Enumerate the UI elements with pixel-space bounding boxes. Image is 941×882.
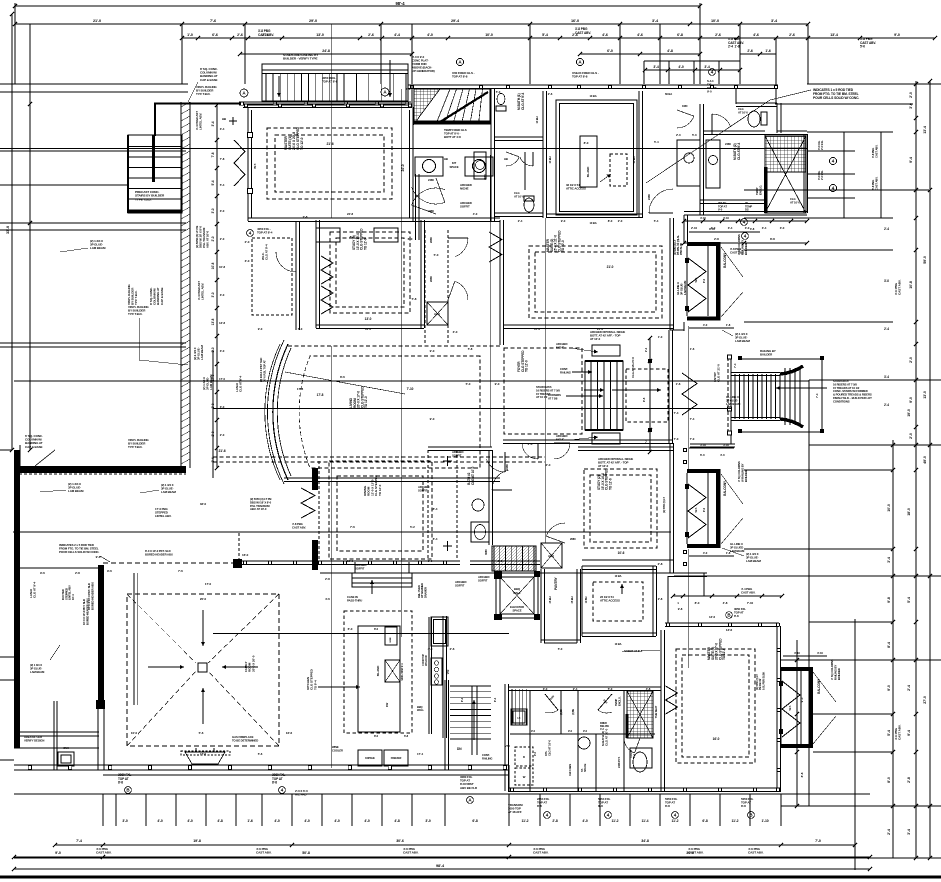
- svg-text:6'-8: 6'-8: [404, 734, 409, 738]
- study1 west arched window: [321, 256, 333, 284]
- svg-text:2'-6: 2'-6: [368, 33, 374, 37]
- pass-thru counter: [352, 573, 412, 587]
- svg-text:17'-8: 17'-8: [317, 393, 324, 397]
- svg-text:CLG AT 9'-4: CLG AT 9'-4: [737, 142, 741, 160]
- svg-text:5'-4: 5'-4: [211, 180, 215, 185]
- svg-text:4'-0: 4'-0: [703, 551, 708, 555]
- attic access dashed: [610, 154, 627, 186]
- svg-text:8'-8: 8'-8: [741, 804, 746, 808]
- svg-text:16'-0: 16'-0: [713, 737, 720, 741]
- balcony 3 thick frame: [781, 667, 813, 671]
- svg-text:2'-4: 2'-4: [573, 687, 578, 691]
- foyer label: [517, 350, 529, 372]
- svg-text:2680: 2680: [570, 537, 576, 541]
- entry porch rail: [727, 357, 729, 433]
- wic walls: [295, 222, 297, 330]
- col/railing notes lanai: [25, 434, 43, 449]
- svg-text:11'-4: 11'-4: [642, 819, 649, 823]
- laundry shelves: [511, 689, 513, 725]
- svg-text:NICHE: NICHE: [556, 437, 564, 441]
- svg-text:2'-4: 2'-4: [907, 685, 911, 691]
- svg-text:TO 12'-0: TO 12'-0: [525, 360, 529, 372]
- dim row below mbath2: [684, 220, 807, 222]
- svg-text:CAST ABV.: CAST ABV.: [898, 279, 902, 295]
- svg-text:1680: 1680: [682, 104, 688, 108]
- svg-text:10'-8: 10'-8: [909, 281, 913, 289]
- svg-text:AT 10 1/2: AT 10 1/2: [536, 395, 548, 399]
- svg-text:21'-6: 21'-6: [326, 142, 333, 146]
- svg-text:8'-0: 8'-0: [695, 601, 700, 605]
- svg-text:8'-0: 8'-0: [608, 219, 613, 223]
- svg-text:2'-6: 2'-6: [789, 33, 795, 37]
- master suite 1 label: [284, 127, 304, 150]
- left wing roof lines: [0, 83, 188, 85]
- construction line y633: [213, 633, 509, 635]
- svg-text:SPACE: SPACE: [583, 763, 587, 772]
- cooktop: [428, 617, 430, 734]
- rod tie note top right: [813, 88, 859, 100]
- closet inner rect: [556, 100, 637, 215]
- kitchen label: [306, 668, 317, 690]
- svg-text:8'-0: 8'-0: [887, 777, 891, 783]
- svg-text:8'-8: 8'-8: [800, 772, 804, 777]
- mbath2 room: [733, 142, 741, 160]
- bottom dim ticks row1: [102, 794, 104, 826]
- svg-text:LAM BEAM: LAM BEAM: [30, 670, 45, 674]
- svg-text:4'-8: 4'-8: [394, 819, 400, 823]
- svg-text:1'-8: 1'-8: [726, 323, 731, 327]
- arched soffit right of dining: [452, 450, 463, 457]
- svg-text:TOP AT 8'-8: TOP AT 8'-8: [452, 75, 468, 79]
- mbath3 labels: [601, 728, 609, 746]
- svg-text:5'-0: 5'-0: [298, 327, 303, 331]
- family west wall hatched: [98, 565, 104, 708]
- svg-text:9'-0: 9'-0: [583, 729, 588, 733]
- svg-text:29'-0: 29'-0: [309, 19, 317, 23]
- washer dryer dashed: [515, 747, 533, 766]
- svg-text:SOFFIT: SOFFIT: [455, 583, 465, 587]
- svg-text:3'-0: 3'-0: [245, 259, 250, 263]
- attic room walls: [582, 565, 656, 567]
- svg-text:3'-10: 3'-10: [700, 443, 706, 447]
- hall rooms walls: [699, 104, 701, 215]
- svg-text:15'-0: 15'-0: [534, 327, 540, 331]
- svg-text:2'-8: 2'-8: [325, 577, 330, 581]
- svg-text:4'-8: 4'-8: [217, 819, 223, 823]
- svg-text:TO 12'-0: TO 12'-0: [300, 137, 304, 150]
- svg-text:A/C PAD: A/C PAD: [295, 793, 307, 797]
- svg-text:13'-4: 13'-4: [923, 126, 927, 134]
- entry porch stair top: [262, 64, 408, 101]
- svg-text:ISLAND: ISLAND: [586, 166, 590, 178]
- balcony 2 window wall: [686, 473, 688, 544]
- svg-text:10 BH: 10 BH: [632, 156, 636, 163]
- svg-text:2'-8: 2'-8: [406, 87, 411, 91]
- svg-text:17'-0: 17'-0: [219, 377, 225, 381]
- svg-text:CAST ABV.: CAST ABV.: [256, 851, 272, 855]
- svg-text:2'-8: 2'-8: [303, 215, 308, 219]
- svg-text:7'-4: 7'-4: [733, 363, 737, 368]
- balcony1 glue lam note: [735, 332, 750, 343]
- svg-text:9'-0: 9'-0: [495, 382, 500, 386]
- svg-text:SOFFIT: SOFFIT: [460, 205, 470, 209]
- svg-text:5'-0: 5'-0: [692, 133, 697, 137]
- svg-text:CLG AT 9'-4: CLG AT 9'-4: [239, 375, 243, 392]
- svg-text:10'-8: 10'-8: [219, 265, 225, 269]
- svg-text:9'-0: 9'-0: [568, 729, 573, 733]
- svg-text:4'-0: 4'-0: [274, 819, 280, 823]
- dimension line right columns: [915, 81, 917, 858]
- svg-text:AT 10'-0: AT 10'-0: [790, 200, 800, 204]
- svg-text:3'-4: 3'-4: [652, 19, 659, 23]
- svg-text:TOP AT 8'-8: TOP AT 8'-8: [322, 80, 338, 84]
- svg-text:2'-8: 2'-8: [907, 777, 911, 783]
- family hdr note: [87, 582, 94, 610]
- soffit dashed band: [213, 456, 545, 458]
- svg-text:7'-0: 7'-0: [690, 437, 695, 441]
- bbq wall: [417, 705, 424, 712]
- svg-text:CHI CABS: CHI CABS: [568, 764, 572, 776]
- elevator: [496, 573, 538, 618]
- svg-text:6'-0: 6'-0: [408, 237, 413, 241]
- svg-text:17'-0: 17'-0: [200, 752, 206, 756]
- svg-text:2'-0: 2'-0: [528, 442, 533, 446]
- svg-text:7'-6: 7'-6: [210, 19, 216, 23]
- svg-text:2'-0: 2'-0: [245, 240, 250, 244]
- svg-text:2680: 2680: [429, 276, 433, 282]
- svg-text:1'-0: 1'-0: [658, 335, 663, 339]
- balcony 3 window wall: [780, 671, 782, 744]
- svg-text:2480: 2480: [505, 464, 509, 470]
- living sw arched windows: [301, 488, 315, 518]
- entry stair treads: [734, 374, 736, 419]
- svg-text:3'-4: 3'-4: [704, 65, 710, 69]
- svg-text:3'-4: 3'-4: [907, 829, 911, 835]
- mbath2 toilet room: [703, 130, 765, 132]
- svg-text:AHU: AHU: [548, 554, 554, 558]
- svg-text:CLG AT 10'-0: CLG AT 10'-0: [605, 728, 609, 746]
- svg-text:3'-0: 3'-0: [122, 819, 128, 823]
- svg-text:LAM BEAM: LAM BEAM: [735, 339, 750, 343]
- hose bib: [229, 120, 237, 122]
- winder stair: [414, 89, 490, 124]
- svg-text:2'-0 9.SL: 2'-0 9.SL: [820, 170, 824, 180]
- svg-text:4'-6: 4'-6: [637, 33, 643, 37]
- svg-text:VTR: VTR: [447, 669, 450, 674]
- bottom porch wall: [14, 764, 509, 766]
- svg-text:BUILDER - VERIFY TYPE: BUILDER - VERIFY TYPE: [283, 57, 317, 61]
- page left edge leader lines: [0, 83, 30, 85]
- mbath3 shower: [627, 691, 653, 738]
- svg-text:LINTEL ABV.: LINTEL ABV.: [155, 514, 172, 518]
- svg-text:19'-0: 19'-0: [907, 409, 911, 417]
- svg-text:TOP AT 8'-8: TOP AT 8'-8: [572, 75, 588, 79]
- ms1 west arched windows: [234, 140, 245, 186]
- svg-text:8'-8: 8'-8: [598, 804, 603, 808]
- svg-text:27'-0: 27'-0: [923, 696, 927, 704]
- svg-text:LAM BEAM: LAM BEAM: [68, 489, 84, 493]
- svg-text:4'-0: 4'-0: [304, 819, 310, 823]
- svg-text:W.T.: W.T.: [253, 163, 257, 169]
- svg-text:60 BA: 60 BA: [665, 92, 672, 96]
- svg-text:CAST ABV.: CAST ABV.: [748, 851, 764, 855]
- svg-text:W.T.: W.T.: [788, 705, 792, 710]
- svg-text:8'-10: 8'-10: [709, 227, 715, 231]
- svg-text:20'-0 X 20'-0: 20'-0 X 20'-0: [251, 655, 255, 672]
- svg-text:2'-0: 2'-0: [546, 463, 551, 467]
- svg-text:4'-0: 4'-0: [678, 65, 684, 69]
- family label: [244, 655, 255, 672]
- svg-text:9'-8: 9'-8: [887, 597, 891, 603]
- master3 dashed ceiling: [676, 649, 755, 763]
- island sink: [385, 660, 400, 682]
- svg-text:17'-4: 17'-4: [417, 752, 423, 756]
- svg-text:CAP & BASE: CAP & BASE: [25, 445, 43, 449]
- master3 label: [707, 638, 726, 660]
- svg-text:13'-8: 13'-8: [219, 321, 225, 325]
- svg-text:TO 12'-0: TO 12'-0: [364, 396, 368, 408]
- dimension line top row 4 right: [740, 53, 776, 55]
- dbl oven note: [417, 583, 427, 598]
- svg-text:2'-0: 2'-0: [211, 236, 215, 241]
- wall crosses: [443, 460, 452, 462]
- svg-text:34'-8: 34'-8: [641, 839, 649, 843]
- kitchen/dining divider: [320, 572, 671, 574]
- svg-text:CLG AT 21'-0: CLG AT 21'-0: [717, 364, 721, 382]
- svg-text:8'-8: 8'-8: [734, 614, 739, 618]
- svg-text:HB: HB: [444, 157, 448, 161]
- svg-text:CAST ABV.: CAST ABV.: [898, 724, 902, 740]
- svg-text:5'-4: 5'-4: [654, 219, 659, 223]
- living bottom wall: [284, 477, 500, 479]
- svg-text:9'-0: 9'-0: [909, 397, 913, 403]
- svg-text:9'-4: 9'-4: [909, 157, 913, 163]
- svg-text:5'-0: 5'-0: [558, 647, 563, 651]
- stair arrows: [584, 389, 604, 391]
- closet small rects top hall: [316, 228, 340, 242]
- svg-text:6'-0: 6'-0: [348, 627, 353, 631]
- svg-text:11'-2: 11'-2: [522, 819, 529, 823]
- svg-text:2'-0: 2'-0: [676, 133, 681, 137]
- svg-text:13'-0: 13'-0: [365, 327, 371, 331]
- svg-text:BALCONY: BALCONY: [817, 678, 821, 694]
- svg-text:4'-8: 4'-8: [646, 687, 651, 691]
- svg-text:2'-6: 2'-6: [237, 33, 243, 37]
- svg-text:BUILDER: BUILDER: [837, 668, 841, 680]
- svg-text:CAST ABV.: CAST ABV.: [575, 31, 591, 35]
- svg-text:TO 9'-4: TO 9'-4: [313, 680, 317, 690]
- balcony 1 label: [723, 252, 727, 268]
- svg-text:TO BE DETERMINED: TO BE DETERMINED: [232, 738, 258, 742]
- svg-text:8'-0: 8'-0: [374, 734, 379, 738]
- gl line notes right: [676, 280, 687, 295]
- svg-text:WALL: WALL: [513, 591, 521, 595]
- lanai west hatched wall: [14, 468, 20, 748]
- railing by builder note: [760, 349, 776, 357]
- svg-text:3'-0: 3'-0: [909, 103, 913, 109]
- svg-text:5'-6: 5'-6: [258, 752, 263, 756]
- svg-text:ABV. AT 10'-0: ABV. AT 10'-0: [206, 231, 210, 248]
- svg-text:16'-6: 16'-6: [286, 731, 293, 735]
- svg-text:8'-0: 8'-0: [350, 235, 355, 239]
- svg-text:7'-10: 7'-10: [407, 387, 414, 391]
- svg-text:3'-10: 3'-10: [723, 443, 729, 447]
- main top wall: [408, 84, 778, 86]
- svg-text:9'-0: 9'-0: [430, 349, 435, 353]
- svg-text:11'-2: 11'-2: [672, 819, 679, 823]
- dining dashed ceiling: [329, 461, 432, 559]
- top vertical drop lines from dims: [14, 6, 16, 84]
- svg-text:CAP & BASE: CAP & BASE: [200, 78, 218, 82]
- svg-text:32'-0: 32'-0: [200, 502, 207, 506]
- bottom window labels: [118, 773, 131, 785]
- main stair: [585, 361, 623, 430]
- bath2 fixtures: [472, 499, 484, 511]
- master2 dashed ceiling: [529, 246, 662, 318]
- svg-text:8'-8: 8'-8: [537, 804, 542, 808]
- svg-text:4'-0: 4'-0: [157, 819, 163, 823]
- svg-text:7'-4: 7'-4: [674, 411, 679, 415]
- svg-text:LAM BEAM: LAM BEAM: [726, 402, 741, 406]
- svg-text:SOFFIT: SOFFIT: [355, 566, 365, 570]
- construction line x688: [687, 326, 689, 469]
- ms1 window label: [257, 227, 273, 235]
- svg-text:19'-8: 19'-8: [193, 839, 201, 843]
- svg-text:2'-6: 2'-6: [747, 49, 753, 53]
- svg-text:2480: 2480: [428, 209, 434, 213]
- svg-text:59'-0: 59'-0: [923, 256, 927, 264]
- svg-text:8'-8: 8'-8: [272, 781, 277, 785]
- stair landing: [649, 361, 651, 430]
- pantry walls: [540, 569, 542, 643]
- svg-text:KOPKHE: KOPKHE: [365, 757, 375, 760]
- svg-text:49'-0: 49'-0: [923, 456, 927, 464]
- svg-text:2'-4: 2'-4: [884, 403, 889, 407]
- mbath1 toilet: [497, 94, 505, 105]
- master3 west arched window: [666, 686, 678, 714]
- dressing room outer walls: [546, 213, 642, 215]
- svg-text:AT 12'-0: AT 12'-0: [598, 464, 609, 468]
- bottom window sill line: [103, 774, 509, 776]
- area of cdx note: [24, 735, 44, 742]
- mbath3 doors diagonal: [545, 694, 558, 710]
- svg-text:VTR: VTR: [505, 745, 510, 748]
- svg-text:6'-0: 6'-0: [607, 49, 613, 53]
- svg-text:8'-6: 8'-6: [340, 375, 345, 379]
- svg-text:10'-6: 10'-6: [618, 551, 625, 555]
- mbath2 shower hatched: [765, 136, 806, 172]
- lanai rod tie note: [59, 543, 100, 554]
- svg-text:ATTIC ACCESS: ATTIC ACCESS: [566, 187, 586, 191]
- svg-text:BORED HEADER ABV.: BORED HEADER ABV.: [85, 598, 89, 625]
- svg-text:BALCONY: BALCONY: [723, 480, 727, 496]
- svg-text:3'-0: 3'-0: [211, 292, 215, 297]
- sink: [58, 752, 74, 766]
- svg-text:2'-0: 2'-0: [618, 219, 623, 223]
- svg-text:WALL: WALL: [417, 708, 424, 712]
- svg-text:CAST ABV.: CAST ABV.: [874, 176, 878, 190]
- svg-text:21'-6: 21'-6: [218, 449, 225, 453]
- svg-text:4'-0: 4'-0: [703, 323, 708, 327]
- svg-text:AT 10'-0: AT 10'-0: [738, 110, 748, 114]
- svg-text:13'-8: 13'-8: [211, 318, 215, 325]
- svg-text:ATTIC ACCESS: ATTIC ACCESS: [600, 599, 620, 603]
- svg-text:DW: DW: [385, 702, 389, 707]
- svg-text:10'-0: 10'-0: [887, 504, 891, 512]
- svg-text:9'-0: 9'-0: [533, 751, 537, 756]
- construction line x331: [330, 24, 332, 218]
- svg-text:CLG AT 9'-4: CLG AT 9'-4: [521, 92, 525, 110]
- svg-text:9'-6: 9'-6: [96, 555, 101, 559]
- svg-text:SINK / DISP 9'-4: SINK / DISP 9'-4: [401, 663, 404, 681]
- svg-text:7'-4: 7'-4: [815, 393, 819, 398]
- svg-text:1'-6: 1'-6: [247, 819, 253, 823]
- svg-text:W.T.: W.T.: [694, 507, 698, 512]
- svg-text:30'-6: 30'-6: [396, 839, 404, 843]
- svg-text:3'-4: 3'-4: [211, 121, 215, 126]
- svg-text:3'-0: 3'-0: [884, 279, 889, 283]
- svg-text:13'-0: 13'-0: [923, 391, 927, 399]
- svg-text:ENCLO.: ENCLO.: [758, 185, 762, 195]
- mbath2 vanity: [706, 140, 720, 188]
- svg-text:4'-0: 4'-0: [334, 819, 340, 823]
- svg-text:2'-4: 2'-4: [518, 219, 523, 223]
- svg-text:2'-10: 2'-10: [691, 226, 697, 230]
- svg-text:10'-0: 10'-0: [485, 33, 493, 37]
- svg-text:17'-8: 17'-8: [297, 387, 304, 391]
- svg-text:4'-0: 4'-0: [582, 819, 588, 823]
- foyer arch doors: [537, 443, 539, 459]
- svg-text:5'-0: 5'-0: [608, 687, 613, 691]
- porch-ms3 jog: [504, 770, 506, 791]
- construction line y148: [0, 148, 807, 150]
- lanai corner thick walls: [15, 450, 17, 473]
- svg-text:3'-0: 3'-0: [780, 226, 785, 230]
- svg-text:9'-0: 9'-0: [707, 90, 712, 94]
- dimension line top row 1: [15, 5, 700, 7]
- construction line y381: [14, 380, 809, 382]
- left exterior hatched wall: [180, 102, 182, 468]
- svg-text:SNK: SNK: [63, 746, 69, 750]
- svg-text:8'-0: 8'-0: [584, 141, 589, 145]
- SE corner step walls: [668, 572, 707, 574]
- svg-text:9'-0: 9'-0: [55, 851, 61, 855]
- svg-text:10'-8: 10'-8: [211, 262, 215, 269]
- svg-text:16'-0: 16'-0: [347, 559, 353, 563]
- svg-text:BOTT AT 4'-8: BOTT AT 4'-8: [444, 135, 461, 139]
- top wall jogs: [411, 85, 413, 107]
- svg-text:FREEZER: FREEZER: [391, 757, 402, 760]
- rear lanai boundary: [212, 350, 214, 478]
- hall double doors: [506, 152, 519, 157]
- window header texts top: [258, 29, 274, 37]
- right wall jog below balcony1: [683, 322, 685, 331]
- svg-text:LAM BEAM: LAM BEAM: [730, 549, 745, 553]
- svg-text:13'-0: 13'-0: [365, 317, 372, 321]
- svg-text:5'-4: 5'-4: [654, 140, 659, 144]
- svg-text:4'-4: 4'-4: [394, 33, 400, 37]
- svg-text:5'-4: 5'-4: [887, 730, 891, 736]
- svg-text:7'-0: 7'-0: [815, 839, 821, 843]
- svg-text:3'-0: 3'-0: [211, 208, 215, 213]
- svg-text:3'-8: 3'-8: [750, 227, 755, 231]
- svg-text:TOP AT 8'-4: TOP AT 8'-4: [257, 231, 273, 235]
- svg-text:W.T.: W.T.: [694, 277, 698, 282]
- ms1 door arcs: [436, 178, 445, 202]
- ms3 bottom wall: [508, 787, 781, 789]
- svg-text:LT.: LT.: [518, 717, 521, 720]
- master1 top wall: [243, 103, 412, 105]
